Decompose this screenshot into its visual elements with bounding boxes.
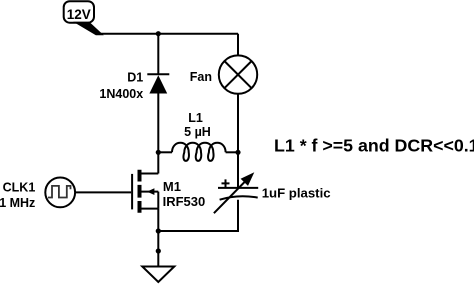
diode D1 1N400x — [147, 74, 169, 93]
node E junction dot above ground — [156, 248, 161, 253]
svg-text:M1: M1 — [163, 179, 181, 194]
wire top horizontal from 12V to fan branch — [100, 33, 238, 35]
voltage source label 12V callout box — [64, 1, 103, 35]
wire capacitor branch from inductor right node down to capacitor — [237, 152, 239, 188]
svg-text:D1: D1 — [127, 70, 143, 84]
capacitor C1 variable polarized 1uF — [214, 172, 258, 213]
node D junction dot source/capacitor return — [156, 228, 161, 233]
svg-text:5 µH: 5 µH — [184, 125, 211, 139]
inductor L1 5uH horizontal coil — [158, 143, 238, 161]
node C junction dot inductor right — [235, 150, 240, 155]
svg-text:IRF530: IRF530 — [163, 194, 206, 209]
wire fan branch vertical from top wire to fan — [237, 34, 239, 56]
clock source CLK1 circle with square wave — [45, 178, 75, 208]
wire MOSFET source down to ground — [157, 209, 159, 267]
lamp/fan symbol FAN1 circle with X — [219, 55, 257, 93]
svg-text:1uF plastic: 1uF plastic — [262, 185, 331, 200]
svg-text:1N400x: 1N400x — [99, 87, 143, 101]
wire from fan bottom down to inductor right node — [237, 94, 239, 153]
ground — [142, 267, 174, 283]
wire from diode anode down to MOSFET drain corner — [157, 94, 159, 174]
wire from clock to MOSFET gate — [75, 191, 131, 193]
node B junction dot inductor left — [156, 150, 161, 155]
svg-text:12V: 12V — [67, 7, 91, 22]
wire from top node down to diode cathode — [157, 34, 159, 75]
svg-text:1 MHz: 1 MHz — [0, 196, 35, 210]
svg-text:CLK1: CLK1 — [3, 181, 36, 195]
svg-text:L1 * f >=5 and DCR<<0.1: L1 * f >=5 and DCR<<0.1 — [274, 136, 474, 156]
svg-text:Fan: Fan — [190, 70, 212, 84]
node A junction dot top wire / diode branch — [156, 31, 161, 36]
wire from capacitor bottom down and left to source node — [158, 200, 238, 231]
transistor M1 IRF530 NMOS — [132, 170, 158, 213]
svg-text:L1: L1 — [188, 111, 203, 125]
